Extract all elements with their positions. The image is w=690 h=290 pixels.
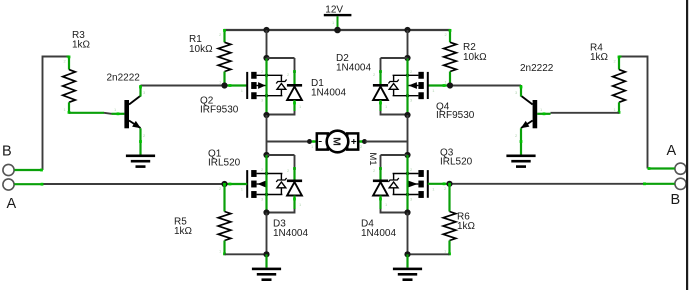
label D1	[311, 78, 346, 99]
svg-text:IRF9530: IRF9530	[200, 104, 239, 115]
wire 12V bus	[224, 29, 451, 31]
wire Q1 rail	[265, 155, 267, 213]
wire D3 top connection	[267, 155, 296, 180]
label R1 value	[189, 34, 213, 55]
label B right	[671, 192, 681, 208]
label Q1	[208, 148, 241, 168]
wire Q2 rail	[265, 58, 267, 115]
svg-text:M: M	[331, 137, 343, 146]
connector pin B right	[675, 178, 686, 189]
svg-text:A: A	[7, 196, 17, 212]
node R1-Q2gate junction	[221, 82, 227, 88]
svg-text:B: B	[2, 144, 12, 160]
op wire bus to Q2 source	[266, 30, 268, 58]
svg-text:2n2222: 2n2222	[107, 72, 141, 83]
label A right	[667, 143, 677, 159]
svg-text:1kΩ: 1kΩ	[174, 226, 193, 237]
node motor right terminal	[362, 139, 367, 144]
svg-text:10kΩ: 10kΩ	[189, 44, 213, 55]
transistor Q4 IRF9530	[388, 69, 435, 103]
node Q2 drain node	[263, 112, 269, 118]
label D3	[273, 219, 308, 239]
label R3 value	[72, 30, 91, 51]
wire A terminal riser	[619, 57, 648, 169]
wire B terminal riser	[43, 57, 70, 171]
transistor 2n2222 right	[515, 85, 537, 155]
ground right emitter	[506, 155, 535, 168]
ground left emitter	[126, 155, 155, 168]
node bus-right junction	[404, 27, 410, 33]
label 2n2222 left	[107, 72, 141, 83]
node left ground junction	[263, 251, 269, 257]
wire B right lead	[643, 182, 675, 185]
wire motor to right output	[366, 141, 408, 143]
transistor Q1 IRL520	[241, 167, 287, 202]
resistor R2	[444, 29, 457, 87]
svg-text:1N4004: 1N4004	[311, 87, 346, 98]
label R4 value	[590, 42, 609, 63]
wire B left lead	[14, 169, 43, 172]
node right output / D4 node	[404, 152, 410, 158]
node left output / D3 node	[263, 152, 269, 158]
resistor R3	[63, 56, 76, 114]
wire Q1 source to ground rail	[266, 213, 268, 255]
ground left bridge	[252, 268, 281, 281]
label M1	[367, 152, 378, 165]
diode D3 1N4004	[267, 168, 303, 213]
svg-text:1kΩ: 1kΩ	[590, 52, 609, 63]
wire Q2 gate / R1 bottom to 2n2222 collector	[141, 84, 248, 87]
wire R4 bottom to 2n2222 base	[537, 107, 619, 115]
node bus-left junction	[263, 27, 269, 33]
ground right bridge	[393, 268, 422, 281]
label D2	[336, 53, 371, 73]
wire left output to motor	[267, 141, 310, 143]
label R2 value	[463, 42, 487, 63]
svg-text:10kΩ: 10kΩ	[463, 52, 487, 63]
resistor R6	[443, 183, 456, 256]
transistor Q2 IRF9530	[241, 69, 287, 103]
svg-text:1N4004: 1N4004	[273, 228, 308, 239]
connector pin A left	[3, 179, 14, 190]
wire Q3 rail	[406, 155, 408, 213]
svg-text:IRL520: IRL520	[440, 156, 473, 167]
label B left	[2, 144, 12, 160]
wire Q4 gate / R2 bottom to 2n2222 collector	[428, 84, 521, 87]
connector pin B left	[3, 164, 14, 175]
label 2n2222 right	[520, 63, 554, 74]
svg-text:1N4004: 1N4004	[336, 63, 371, 74]
wire Q4 rail	[406, 58, 408, 115]
node right ground junction	[404, 251, 410, 257]
wire R6 bottom to ground node	[408, 253, 450, 255]
node Q3 source node	[404, 209, 410, 215]
power supply +12V symbol	[324, 4, 352, 30]
label Q2	[200, 95, 239, 115]
wire R3 bottom to 2n2222 base	[69, 107, 124, 115]
resistor R1	[218, 29, 231, 87]
diode D1 1N4004	[267, 58, 303, 115]
node Q4 drain node	[404, 112, 410, 118]
node R2-Q4gate junction	[447, 82, 453, 88]
label R5 value	[174, 217, 193, 238]
wire bus to Q4 source	[407, 30, 409, 58]
label A left	[7, 196, 17, 212]
label Q4	[436, 102, 475, 122]
label D4	[361, 219, 396, 239]
wire ground stub left	[265, 254, 267, 267]
svg-text:M1: M1	[367, 152, 378, 165]
wire Q3 source to ground rail	[407, 213, 409, 255]
svg-text:A: A	[667, 143, 677, 159]
wire R5 bottom to ground node	[225, 253, 267, 255]
svg-text:IRF9530: IRF9530	[436, 110, 475, 121]
svg-text:1kΩ: 1kΩ	[72, 39, 91, 50]
svg-text:B: B	[671, 192, 681, 208]
node motor left terminal	[307, 139, 312, 144]
node bus-12V junction	[334, 27, 341, 34]
svg-text:2n2222: 2n2222	[520, 63, 554, 74]
label Q3	[440, 147, 473, 167]
node Q4 source node	[404, 55, 410, 61]
transistor Q3 IRL520	[388, 167, 435, 202]
wire left output vertical	[266, 115, 268, 155]
wire D4 top connection	[379, 155, 407, 180]
motor M1	[311, 131, 363, 153]
wire A left lead	[14, 183, 43, 186]
node Q1 source node	[263, 209, 269, 215]
diode D4 1N4004	[373, 168, 408, 213]
svg-text:1N4004: 1N4004	[361, 228, 396, 239]
node Q2 source node	[263, 55, 269, 61]
wire A right lead	[648, 167, 675, 170]
wire right output vertical	[407, 115, 409, 155]
resistor R5	[218, 183, 231, 255]
svg-text:1kΩ: 1kΩ	[457, 221, 476, 232]
wire B input to Q3 gate	[428, 182, 644, 185]
wire A input to Q1 gate	[43, 183, 247, 186]
svg-text:IRL520: IRL520	[208, 157, 241, 168]
diode D2 1N4004	[373, 58, 408, 115]
node R5-Q1gate junction	[221, 181, 227, 187]
node R6-Q3gate junction	[446, 181, 452, 187]
connector pin A right	[675, 163, 686, 174]
svg-text:12V: 12V	[325, 4, 343, 15]
label R6 value	[457, 212, 476, 233]
resistor R4	[613, 56, 626, 114]
wire ground stub right	[406, 254, 408, 267]
transistor 2n2222 left	[124, 85, 146, 155]
